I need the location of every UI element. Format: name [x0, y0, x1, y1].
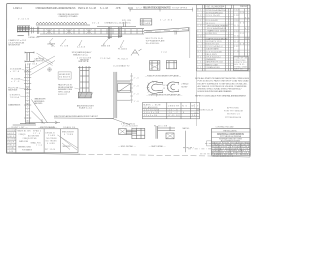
svg-text:WEB 3/8: WEB 3/8 — [101, 46, 111, 48]
horseshoe flange faces — [163, 82, 179, 92]
svg-text:OF ANGLES: OF ANGLES — [144, 106, 159, 109]
svg-text:120: 120 — [240, 12, 244, 14]
hanger column detail — [96, 58, 139, 119]
stiffener ticks — [44, 29, 143, 34]
small detail 2 — [166, 61, 176, 69]
svg-text:PAINT 1 COAT: PAINT 1 COAT — [206, 63, 219, 66]
left column elevation — [8, 56, 60, 125]
svg-text:3/4 BOLTS: 3/4 BOLTS — [59, 76, 71, 78]
svg-text:PITTSBURGH PA: PITTSBURGH PA — [225, 116, 242, 119]
svg-text:7/8 DIA: 7/8 DIA — [10, 96, 20, 99]
svg-text:1 1/4 ANCH BOLTS: 1 1/4 ANCH BOLTS — [8, 104, 21, 107]
svg-text:4 RIVETS: 4 RIVETS — [34, 61, 44, 63]
boxed note — [58, 72, 71, 79]
svg-text:16 FILLS: 16 FILLS — [206, 23, 216, 25]
flange plan details (mid right) — [145, 30, 197, 126]
svg-text:PER E.M. 6-1-48: PER E.M. 6-1-48 — [78, 7, 97, 10]
header box — [205, 5, 232, 9]
caption anchor bolt detail — [77, 104, 95, 109]
svg-text:SO. TRUSS: SO. TRUSS — [46, 140, 58, 142]
frame — [212, 129, 251, 156]
svg-text:TOTAL: TOTAL — [7, 147, 14, 150]
svg-text:— CROSS GIRDER BOTTOM FLANGE P: — CROSS GIRDER BOTTOM FLANGE PLAN — — [146, 94, 183, 97]
bottom border faint middle segment — [80, 154, 212, 156]
joint cluster before taper — [124, 22, 126, 28]
svg-text:8'-11 1/2: 8'-11 1/2 — [169, 115, 181, 117]
svg-text:1248: 1248 — [7, 151, 13, 153]
svg-text:SEE ERECT DWG: SEE ERECT DWG — [18, 146, 32, 148]
erection diagram table (bottom left) — [7, 126, 78, 153]
top labels — [100, 58, 129, 68]
cap text — [34, 57, 45, 62]
svg-text:2 DRAIN HOLES: 2 DRAIN HOLES — [206, 66, 221, 69]
left small box — [207, 141, 212, 146]
top flange rivet zigzag — [36, 22, 87, 24]
svg-text:214: 214 — [234, 30, 238, 32]
cap leaders up-right — [30, 56, 56, 76]
middle content rows — [18, 130, 72, 152]
left end box detail — [17, 26, 30, 36]
svg-text:SHOWN. STRUCTURAL STEEL PER AS: SHOWN. STRUCTURAL STEEL PER ASTM A-7 — [198, 88, 243, 91]
svg-text:15'-0: 15'-0 — [92, 23, 100, 25]
title block — [207, 129, 251, 158]
flange ticks — [24, 72, 31, 118]
svg-text:JPB: JPB — [116, 7, 121, 10]
svg-text:160: 160 — [245, 38, 249, 40]
stub column marks — [197, 10, 201, 69]
bottom shelf line — [96, 117, 114, 119]
svg-text:2'-0: 2'-0 — [134, 85, 139, 87]
column shaft lines — [78, 66, 91, 98]
svg-text:WT 1240: WT 1240 — [45, 149, 55, 151]
table frame — [197, 5, 251, 71]
svg-text:2-L3x3: 2-L3x3 — [77, 47, 86, 49]
weight summary box — [234, 57, 249, 71]
material list table (top right) — [197, 5, 251, 71]
svg-text:FIELD: FIELD — [7, 136, 15, 138]
assembly — [119, 128, 145, 139]
svg-text:— PLAN OF CROSS GIRDER TOP FLA: — PLAN OF CROSS GIRDER TOP FLANGE — — [145, 74, 182, 77]
svg-text:FORT PITT BRIDGE: FORT PITT BRIDGE — [224, 111, 244, 113]
svg-text:NO.: NO. — [182, 105, 189, 107]
svg-text:310: 310 — [234, 20, 238, 22]
tapered member — [144, 27, 189, 33]
svg-text:FOR MARKS: FOR MARKS — [22, 148, 33, 151]
svg-text:REFER TO DWG 4482-E FOR GENERA: REFER TO DWG 4482-E FOR GENERAL ARRANGEM… — [195, 95, 247, 98]
svg-text:L 2 x 2 x 1/4: L 2 x 2 x 1/4 — [144, 115, 158, 117]
general notes paragraph — [195, 77, 250, 98]
svg-text:260: 260 — [192, 115, 198, 117]
right side note — [34, 99, 46, 106]
svg-text:CHECKED 6-12-48: CHECKED 6-12-48 — [196, 109, 214, 111]
svg-text:x 1'-3: x 1'-3 — [11, 81, 20, 83]
svg-text:12 I 31.8: 12 I 31.8 — [27, 64, 38, 66]
detail label — [28, 36, 39, 39]
dash-dot margin marks — [188, 143, 212, 154]
horseshoe detail 3 — [147, 81, 163, 97]
svg-text:NOTE: ALL RIVETS 7/8 DIA EXCEP: NOTE: ALL RIVETS 7/8 DIA EXCEPT AS NOTED… — [195, 77, 250, 80]
svg-text:16 x 9/16 FULL: 16 x 9/16 FULL — [146, 43, 161, 45]
svg-text:642: 642 — [234, 10, 238, 12]
svg-text:4 GIRD: 4 GIRD — [47, 143, 56, 145]
svg-text:2'-11 1/2: 2'-11 1/2 — [18, 19, 30, 21]
svg-text:1'-6: 1'-6 — [134, 101, 139, 103]
svg-text:EACH SIDE: EACH SIDE — [8, 89, 18, 92]
svg-text:TYP: TYP — [161, 52, 168, 54]
dimension text over right beam segment — [92, 21, 131, 24]
leader arrows below beam — [49, 38, 124, 48]
bracket arms — [117, 81, 131, 100]
svg-text:PITTSBURGH PENNA: PITTSBURGH PENNA — [220, 135, 242, 138]
svg-text:7/8 RIV: 7/8 RIV — [7, 130, 16, 132]
svg-text:CONTRACT NO 4482: CONTRACT NO 4482 — [216, 126, 235, 129]
svg-text:TYP: TYP — [36, 145, 43, 147]
shaft lines — [114, 72, 117, 118]
svg-text:4 WASHERS: 4 WASHERS — [206, 58, 217, 61]
svg-text:2 REQD: 2 REQD — [181, 83, 189, 85]
row separators — [212, 132, 251, 153]
svg-text:PLAN: PLAN — [48, 134, 56, 137]
svg-text:1-REV A: 1-REV A — [13, 7, 22, 10]
top revision note row — [13, 7, 171, 10]
svg-text:2 LS 4x3x3/8: 2 LS 4x3x3/8 — [123, 126, 139, 128]
svg-text:ERECTION PLAN SHOWING ANCHOR B: ERECTION PLAN SHOWING ANCHOR BOLT LAYOUT — [54, 115, 99, 118]
svg-text:2 REQD: 2 REQD — [19, 134, 27, 136]
diagonal leaders — [57, 135, 78, 150]
splice box detail — [140, 19, 152, 25]
svg-text:SHOWN FOR: SHOWN FOR — [8, 45, 20, 47]
svg-text:SEE DET A: SEE DET A — [78, 60, 89, 63]
svg-text:12'-6: 12'-6 — [33, 133, 40, 135]
svg-text:DETAIL -B1-: DETAIL -B1- — [28, 36, 39, 39]
svg-text:SEE DWG: SEE DWG — [34, 103, 42, 105]
svg-text:NO RIV: NO RIV — [181, 87, 188, 89]
svg-text:12'-2 13/16: 12'-2 13/16 — [136, 7, 150, 9]
svg-text:SHIP WT: SHIP WT — [234, 69, 244, 71]
extension line — [195, 30, 197, 126]
bolt marks — [26, 70, 29, 105]
column shaft — [26, 64, 30, 124]
svg-text:CHANGED 2 BARS 4x3/8 + ADDED D: CHANGED 2 BARS 4x3/8 + ADDED DETAIL PLS — [36, 7, 76, 10]
frame — [7, 129, 78, 153]
row texts dark — [206, 10, 229, 41]
splice plate patch 1 — [108, 27, 112, 39]
svg-text:2 BARS 1/2x4 1/2x8-4: 2 BARS 1/2x4 1/2x8-4 — [207, 30, 228, 33]
section note block — [146, 38, 166, 45]
side marks — [181, 83, 189, 88]
left notes block — [8, 39, 27, 47]
dense data rows — [212, 141, 251, 156]
small detail 1 — [150, 61, 160, 71]
dimension ladder — [130, 73, 133, 103]
stub texts — [7, 130, 16, 153]
svg-text:SHIP LOOSE: SHIP LOOSE — [19, 141, 29, 143]
svg-text:14'-6 1/2 OUT: 14'-6 1/2 OUT — [152, 7, 168, 9]
end detail B — [149, 126, 175, 148]
svg-text:WORKS CO: WORKS CO — [227, 114, 240, 116]
diagonal leaders to section — [37, 53, 54, 66]
svg-text:4 LACING BARS: 4 LACING BARS — [206, 48, 220, 51]
small section mark — [50, 43, 55, 47]
svg-text:FOR FIT: FOR FIT — [58, 94, 68, 96]
assembly — [156, 126, 175, 139]
svg-text:FOR 3/4 BOLTS. PAINT ONE SHOP: FOR 3/4 BOLTS. PAINT ONE SHOP COAT RED L… — [198, 80, 249, 83]
long plan caption with rule — [54, 115, 130, 125]
svg-text:4'-1 1/2 BACK TO: 4'-1 1/2 BACK TO — [113, 64, 129, 67]
svg-text:6 SPA AT 2'-6 = 15'-0 C TO C: 6 SPA AT 2'-6 = 15'-0 C TO C — [105, 21, 131, 24]
right bits — [62, 132, 75, 137]
stub rows — [7, 131, 16, 149]
svg-text:152: 152 — [234, 46, 238, 48]
horseshoe 3 side marks — [164, 85, 169, 90]
base plate hatch — [78, 92, 93, 98]
svg-text:EXCEPT SURFACES TO BE WELDED O: EXCEPT SURFACES TO BE WELDED OR MILLED. — [198, 82, 248, 85]
svg-text:MARK B1 GIR: MARK B1 GIR — [18, 130, 32, 133]
svg-text:APPROVED: APPROVED — [227, 107, 240, 110]
svg-text:HOLES SUB-PUNCHED AND REAMED: HOLES SUB-PUNCHED AND REAMED — [198, 90, 232, 93]
svg-text:WEIGHT: WEIGHT — [240, 6, 249, 8]
svg-text:128: 128 — [234, 15, 238, 17]
girder elevation (top left) — [8, 13, 144, 66]
bracket plate box — [118, 84, 131, 93]
splice joint marks — [32, 27, 39, 34]
note block 2 — [58, 84, 74, 96]
svg-text:SCALE 1 = 1-0: SCALE 1 = 1-0 — [79, 107, 93, 110]
svg-text:PL 3/8: PL 3/8 — [60, 45, 69, 47]
foot ticks under taper — [175, 31, 177, 35]
svg-text:TO OUT OF PLS: TO OUT OF PLS — [172, 7, 188, 9]
leader text above — [121, 123, 138, 127]
end extension line — [189, 27, 191, 58]
note leaders — [19, 69, 26, 97]
diagonal braces — [31, 99, 47, 124]
splice plate patch 2 — [118, 27, 122, 38]
svg-text:2 LS 3x3: 2 LS 3x3 — [100, 58, 111, 60]
match line — [183, 127, 194, 152]
svg-text:1'-2 3/4: 1'-2 3/4 — [160, 19, 173, 21]
dimension texts — [136, 7, 188, 9]
rivet ticks — [25, 68, 30, 122]
row texts light — [206, 15, 223, 69]
svg-text:LENGTH: LENGTH — [168, 105, 180, 107]
girder title text block — [18, 13, 79, 21]
svg-text:x 12'-6: x 12'-6 — [10, 71, 20, 73]
leader labels below beam — [47, 44, 128, 51]
svg-text:SPACED 7'-0 C-C: SPACED 7'-0 C-C — [73, 54, 88, 57]
svg-text:— SHIP DETAIL —: — SHIP DETAIL — — [149, 145, 167, 148]
svg-text:6-1-48: 6-1-48 — [100, 7, 109, 10]
sheet border — [7, 4, 251, 157]
svg-text:PL 10x1/2: PL 10x1/2 — [118, 48, 128, 50]
top labels — [77, 58, 92, 63]
svg-text:2 ANCH BOLTS 1 1/4: 2 ANCH BOLTS 1 1/4 — [206, 61, 223, 64]
svg-text:PL 9x3/8: PL 9x3/8 — [141, 23, 151, 25]
svg-text:MATCH L: MATCH L — [183, 127, 190, 130]
horseshoe detail 4 — [167, 82, 179, 92]
left notes — [8, 69, 22, 99]
header text — [206, 5, 249, 10]
svg-text:FIELD: FIELD — [7, 145, 15, 147]
svg-text:2'-0: 2'-0 — [134, 93, 139, 95]
svg-text:— END DETAIL —: — END DETAIL — — [118, 145, 137, 148]
end detail A — [118, 123, 145, 148]
ladder labels — [134, 77, 139, 103]
tapered bracket plan (top middle) — [129, 7, 192, 58]
splice circle mark — [48, 68, 52, 72]
weld symbols — [131, 49, 142, 56]
lacing X marks — [46, 29, 92, 34]
svg-text:6 STIFF PLS: 6 STIFF PLS — [206, 33, 218, 35]
svg-text:SMALL PLS: SMALL PLS — [31, 141, 42, 144]
svg-text:3/4 RIV: 3/4 RIV — [7, 139, 16, 141]
row lines — [197, 11, 251, 66]
svg-text:2 LS 6x4x3/8: 2 LS 6x4x3/8 — [77, 58, 92, 60]
svg-text:PL 8x1/2: PL 8x1/2 — [118, 58, 129, 60]
angle schedule table (mid) — [143, 103, 200, 119]
I-beam section symbol — [25, 52, 34, 63]
svg-text:DETAIL B: DETAIL B — [46, 132, 56, 135]
svg-text:6 TONS: 6 TONS — [64, 134, 74, 136]
svg-text:2 PLS 12x3/8: 2 PLS 12x3/8 — [206, 15, 220, 17]
ground dimension line — [26, 119, 60, 123]
bars note center — [72, 51, 93, 61]
svg-text:212: 212 — [240, 33, 244, 35]
border tail under block — [212, 155, 251, 158]
captions above — [9, 126, 77, 129]
svg-text:SHOP: SHOP — [7, 142, 15, 144]
svg-text:AS SHOWN: AS SHOWN — [28, 134, 40, 137]
note leader to column — [75, 88, 80, 89]
center column detail — [54, 58, 130, 125]
svg-text:ONE REQD OPP HAND: ONE REQD OPP HAND — [59, 15, 78, 18]
overall dimension line — [129, 8, 192, 12]
weight column entries — [234, 10, 249, 54]
company rows — [217, 130, 244, 142]
inspection stamp — [194, 104, 244, 129]
svg-text:SHOP: SHOP — [7, 133, 15, 135]
svg-text:2'-0: 2'-0 — [134, 77, 139, 79]
scattered dimension ticks row — [49, 42, 123, 48]
base plate — [13, 124, 36, 125]
left tick marks — [194, 104, 198, 113]
group separator lines — [197, 9, 251, 69]
vertical dividers lower — [219, 144, 241, 156]
beam chord lines — [17, 25, 144, 37]
